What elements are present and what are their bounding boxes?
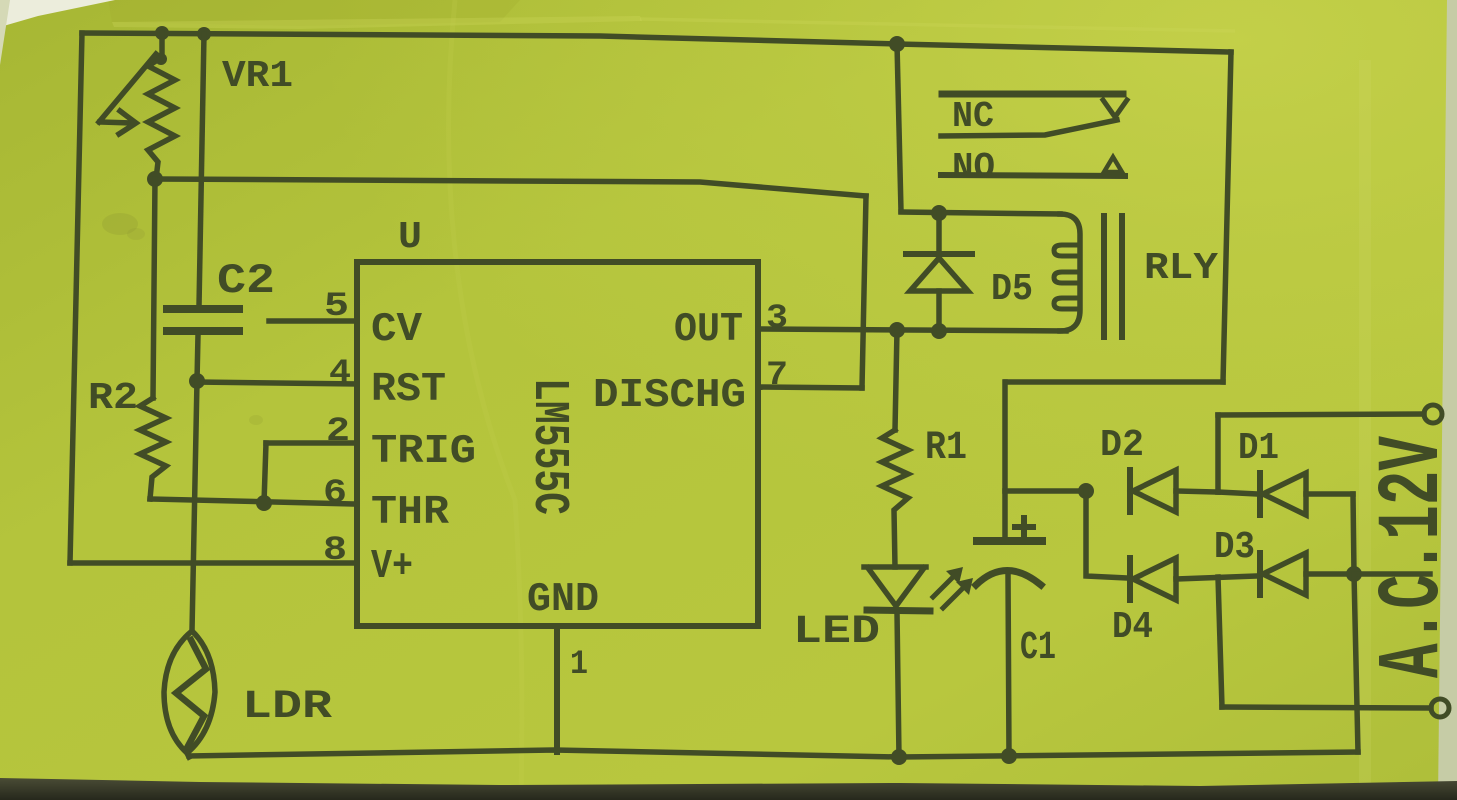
svg-text:8: 8 (323, 532, 347, 570)
node: C2/RST junction (189, 373, 205, 389)
wire: left border down (70, 33, 82, 563)
svg-text:7: 7 (766, 357, 788, 395)
wire: pin 5 stub (269, 318, 357, 324)
svg-text:V+: V+ (371, 544, 413, 590)
svg-text:TRIG: TRIG (371, 429, 476, 475)
node: top rail junction VR1 (155, 26, 169, 40)
node: C1/ground rail junction (1001, 748, 1017, 764)
lighter top right area (0, 0, 1, 1)
relay contact NC bar (942, 91, 1123, 98)
potentiometer VR1 (159, 33, 165, 57)
wire: pin7 row (758, 387, 862, 388)
svg-text:D3: D3 (1214, 526, 1255, 569)
svg-text:A.C.12V: A.C.12V (1365, 436, 1457, 678)
svg-text:RLY: RLY (1144, 247, 1218, 290)
svg-text:D5: D5 (991, 268, 1033, 311)
svg-text:D1: D1 (1238, 427, 1279, 470)
svg-text:LM555C: LM555C (520, 378, 577, 515)
wire: relay box right edge / DC+ feed (1223, 52, 1231, 382)
LED arrows (933, 576, 954, 597)
dark table strip bottom (0, 778, 1457, 800)
svg-text:NO: NO (952, 147, 995, 188)
relay NC contact arrow (1103, 100, 1127, 117)
wire: GND pin 1 stem (554, 626, 560, 752)
svg-text:4: 4 (329, 355, 351, 393)
node: LED/ground rail junction (891, 749, 907, 765)
wire: V+ row to pin 8 (70, 560, 357, 566)
diode D1 (1218, 492, 1257, 494)
svg-text:VR1: VR1 (222, 55, 293, 98)
LED (864, 564, 926, 570)
capacitor C2 (167, 305, 239, 313)
relay NO contact arrow (1104, 157, 1122, 172)
wire: D1 anode drop (1353, 494, 1354, 574)
wire: VR1 bottom to DISCHG horizontal (155, 179, 866, 196)
svg-text:D2: D2 (1100, 424, 1144, 467)
svg-text:R2: R2 (88, 377, 138, 420)
wire: coil top feed (901, 212, 1060, 214)
LDR photoresistor (164, 631, 215, 753)
wire: AC2 to terminal (1222, 707, 1431, 708)
wire: relay box left edge (897, 44, 901, 211)
svg-text:1: 1 (570, 646, 588, 684)
svg-text:R1: R1 (925, 426, 967, 471)
relay core lines (1101, 216, 1107, 337)
wire: RST node down to LDR (192, 381, 197, 631)
diode D4 (1127, 558, 1133, 600)
relay common arm (941, 120, 1117, 136)
wire: DC+ horizontal to C1 column (1006, 379, 1223, 385)
node: VR1 bottom junction (147, 171, 163, 187)
svg-text:THR: THR (371, 490, 449, 536)
node: bridge DC+ junction (1078, 483, 1094, 499)
wire: TRIG row to pin 2 (266, 440, 357, 446)
relay contact NO line (941, 175, 1125, 176)
diode D3 (1257, 553, 1263, 595)
svg-text:2: 2 (326, 413, 350, 451)
node: top rail relay junction (889, 36, 905, 52)
svg-text:3: 3 (766, 300, 788, 338)
wiper arrow of VR1 (99, 54, 156, 122)
svg-text:DISCHG: DISCHG (593, 373, 746, 419)
svg-text:NC: NC (952, 96, 994, 137)
fold highlight vertical center (449, 0, 522, 800)
svg-text:6: 6 (323, 475, 347, 513)
pale paper edge right (1438, 0, 1457, 800)
node: top rail junction C2 column (197, 27, 211, 41)
node: D1/D3 anode junction (1346, 566, 1362, 582)
wire: DC+ branch to bridge row1 (1005, 488, 1086, 494)
wire: DC- vertical to ground rail (1354, 574, 1358, 752)
svg-text:D4: D4 (1112, 606, 1153, 649)
wire: DISCHG vertical drop (862, 196, 866, 388)
wire: DC+ drop to row2 (1086, 491, 1127, 578)
svg-text:C1: C1 (1020, 626, 1056, 671)
paper stain left (102, 213, 138, 235)
diode D2 (1127, 470, 1133, 512)
wire: AC1 vertical (1215, 415, 1221, 492)
svg-text:GND: GND (527, 577, 599, 623)
svg-text:OUT: OUT (674, 307, 743, 353)
diode D5 (936, 213, 942, 252)
plus sign of C1 (1015, 524, 1033, 530)
svg-text:C2: C2 (217, 257, 275, 305)
terminal: A.C. top (1424, 405, 1442, 423)
node: OUT/R1 junction (889, 322, 905, 338)
wire: R2 bottom to THR row (150, 499, 356, 504)
wire: stub right from anode node (1354, 571, 1430, 577)
wire: TRIG jog vertical (264, 443, 266, 503)
relay coil RLY (1060, 214, 1080, 331)
wire: bottom ground rail (189, 750, 1358, 757)
wire: vertical top rail to C2 (199, 34, 204, 306)
top paper edge band (108, 0, 520, 26)
white paper corner top-left (0, 0, 115, 27)
svg-text:U: U (398, 216, 422, 259)
wire: RST row to pin 4 (197, 382, 357, 384)
node: D5 top junction (931, 205, 947, 221)
fold highlight right (1359, 60, 1371, 800)
terminal: A.C. bottom (1431, 699, 1449, 717)
svg-text:CV: CV (371, 307, 422, 353)
node: TRIG/THR junction (256, 495, 272, 511)
resistor R1 (895, 330, 897, 430)
svg-text:LED: LED (793, 610, 880, 655)
IC U1 LM555C box (357, 262, 758, 626)
wire: OUT pin3 row (758, 329, 1066, 331)
wire: AC2 drop from row2 (1218, 577, 1222, 707)
node: OUT/D5 junction (931, 323, 947, 339)
resistor R2 (153, 179, 155, 398)
svg-text:RST: RST (371, 367, 446, 413)
wire: LDR bottom to ground rail (187, 753, 189, 757)
wire: AC1 top to terminal (1218, 414, 1424, 415)
wire: top V+ rail (82, 33, 1231, 52)
svg-text:5: 5 (324, 288, 349, 326)
svg-text:LDR: LDR (242, 685, 332, 730)
capacitor C1 (1002, 382, 1008, 538)
